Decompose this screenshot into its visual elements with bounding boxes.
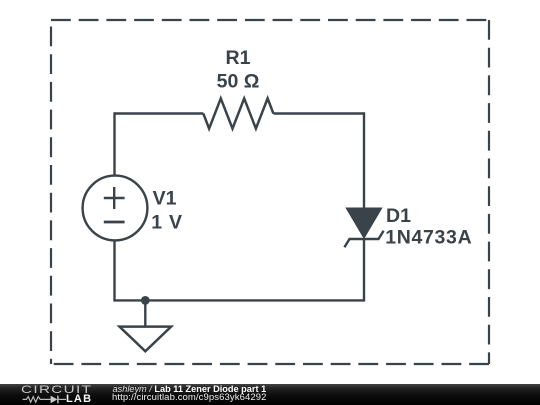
wire top-right horizontal (273, 112, 364, 114)
resistor R1 (203, 98, 273, 128)
value 50 Ω (217, 70, 260, 92)
svg-text:1N4733A: 1N4733A (385, 226, 472, 248)
credit line 2 (112, 393, 267, 403)
svg-text:R1: R1 (226, 47, 251, 69)
credit line 1 (113, 385, 267, 395)
svg-text:1 V: 1 V (151, 211, 182, 233)
ground (120, 327, 172, 352)
label V1 (153, 187, 177, 209)
wire right vertical upper (363, 112, 365, 208)
footer bar (0, 384, 540, 405)
CircuitLab logo schematic glyph (resistor + diode) (0, 384, 110, 405)
svg-text:D1: D1 (386, 205, 411, 227)
wire top-left horizontal (115, 112, 204, 114)
svg-text:50 Ω: 50 Ω (217, 70, 260, 92)
CircuitLab logo wordmark LAB (66, 395, 92, 404)
label D1 (386, 205, 411, 227)
dashed selection border frame (51, 20, 489, 364)
wire right vertical lower (363, 239, 365, 302)
wire bottom horizontal (115, 299, 365, 301)
label R1 (226, 47, 251, 69)
svg-text:V1: V1 (153, 187, 177, 209)
voltage source V1 (83, 176, 148, 241)
CircuitLab logo wordmark CIRCUIT (21, 385, 92, 396)
wire left vertical lower (113, 240, 115, 301)
value 1 V (151, 211, 182, 233)
junction dot (141, 296, 150, 305)
wire left vertical upper (113, 112, 115, 176)
zener diode D1 (344, 208, 383, 247)
value 1N4733A (385, 226, 472, 248)
wire ground stem (144, 300, 146, 326)
